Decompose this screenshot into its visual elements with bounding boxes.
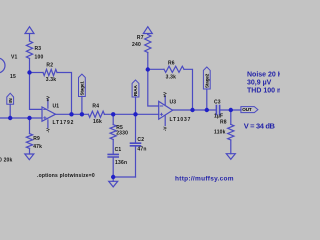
svg-text:R4: R4 bbox=[92, 104, 99, 110]
wire R9 to ground bbox=[29, 149, 31, 155]
svg-text:0 20k: 0 20k bbox=[0, 158, 13, 164]
svg-text:16k: 16k bbox=[93, 119, 102, 125]
wire C2 to rail bbox=[135, 146, 137, 177]
wire R7 to inverting input U3 bbox=[148, 53, 159, 107]
svg-text:3.3k: 3.3k bbox=[46, 77, 57, 83]
wire Stage2 port stem bbox=[206, 89, 208, 110]
wire R8 to ground bbox=[230, 140, 232, 154]
port Stage1 shape bbox=[79, 74, 86, 96]
junction R8/OUT node bbox=[229, 108, 233, 112]
wire R6 branch bbox=[148, 68, 164, 70]
svg-text:LT1792: LT1792 bbox=[53, 120, 75, 126]
svg-text:C3: C3 bbox=[214, 100, 221, 106]
junction U3 output/feedback bbox=[190, 108, 194, 112]
capacitor C1 bbox=[108, 154, 118, 157]
wire R5 branch bbox=[112, 114, 114, 124]
junction RIAA/C2 node bbox=[133, 112, 137, 116]
wire RIAA port stem bbox=[135, 97, 137, 114]
wire R5 to C1 bbox=[112, 140, 114, 154]
port OUT shape bbox=[241, 107, 258, 113]
svg-text:.options plotwinsize=0: .options plotwinsize=0 bbox=[37, 173, 95, 179]
ground flag (rotated up) above R7 bbox=[143, 27, 152, 35]
voltage source V1 bbox=[0, 58, 5, 73]
svg-text:http://muffsy.com: http://muffsy.com bbox=[175, 176, 234, 183]
ground under R9 bbox=[25, 154, 34, 160]
junction U1 output/feedback bbox=[69, 112, 73, 116]
op-amp U1 bbox=[42, 107, 56, 121]
svg-text:C1: C1 bbox=[115, 147, 122, 153]
svg-text:C2: C2 bbox=[137, 137, 144, 143]
svg-text:30,9 µV: 30,9 µV bbox=[247, 80, 272, 87]
resistor R8 bbox=[228, 124, 234, 140]
svg-text:47n: 47n bbox=[137, 147, 146, 153]
ground flag (rotated up) above R3 bbox=[25, 27, 34, 41]
capacitor C3 bbox=[216, 106, 219, 115]
svg-text:136n: 136n bbox=[115, 160, 127, 166]
wire Stage1 port stem bbox=[81, 97, 83, 115]
svg-text:U1: U1 bbox=[53, 103, 60, 109]
resistor R3 bbox=[26, 41, 32, 59]
svg-text:R7: R7 bbox=[137, 35, 144, 41]
junction R5 tap bbox=[111, 112, 115, 116]
wire C2 branch bbox=[135, 114, 137, 142]
svg-text:R6: R6 bbox=[168, 61, 175, 67]
wire R3 to inverting input bbox=[30, 59, 43, 110]
svg-text:OUT: OUT bbox=[242, 107, 252, 112]
resistor R9 bbox=[26, 134, 32, 149]
svg-text:LT1037: LT1037 bbox=[170, 117, 192, 123]
svg-text:U3: U3 bbox=[170, 100, 177, 106]
svg-text:2330: 2330 bbox=[116, 130, 128, 136]
wire C1 to ground rail bbox=[112, 158, 114, 182]
svg-text:R2: R2 bbox=[46, 63, 53, 69]
wire input row bbox=[0, 117, 42, 119]
resistor R4 bbox=[88, 111, 104, 117]
junction R9 tap bbox=[27, 116, 31, 120]
resistor R2 bbox=[43, 69, 57, 75]
svg-text:Stage1: Stage1 bbox=[80, 81, 85, 96]
svg-text:15: 15 bbox=[10, 74, 16, 80]
wire IN port stem bbox=[9, 104, 11, 118]
svg-text:THD 100 m: THD 100 m bbox=[247, 87, 280, 94]
wire R8 branch bbox=[230, 110, 232, 124]
junction IN node bbox=[8, 116, 12, 120]
svg-text:V = 34 dB: V = 34 dB bbox=[244, 121, 276, 130]
ground under R8 bbox=[226, 154, 235, 160]
resistor R5 bbox=[110, 125, 116, 140]
svg-text:R9: R9 bbox=[33, 136, 40, 142]
svg-text:R3: R3 bbox=[35, 46, 42, 52]
svg-text:RIAA: RIAA bbox=[133, 85, 138, 96]
svg-text:Stage2: Stage2 bbox=[204, 73, 209, 88]
port Stage2 shape bbox=[203, 67, 210, 89]
port RIAA shape bbox=[132, 80, 139, 97]
svg-text:V1: V1 bbox=[11, 54, 18, 60]
wire bottom rail bbox=[113, 176, 135, 178]
svg-text:47k: 47k bbox=[33, 144, 42, 150]
capacitor C2 bbox=[131, 143, 141, 146]
junction Stage2 port tap bbox=[205, 108, 209, 112]
ground under C1 bbox=[109, 181, 118, 187]
svg-text:240: 240 bbox=[132, 42, 141, 48]
svg-text:Noise 20 Hz: Noise 20 Hz bbox=[247, 71, 280, 78]
resistor R6 bbox=[164, 66, 184, 72]
junction ground rail bbox=[111, 175, 115, 179]
wire R2 to output node bbox=[57, 73, 72, 115]
wire C3 to OUT bbox=[220, 109, 241, 111]
junction R7/R6 node bbox=[146, 67, 150, 71]
wire stage1 output row bbox=[56, 113, 89, 115]
wire RIAA row bbox=[104, 113, 158, 115]
svg-text:R8: R8 bbox=[220, 120, 227, 126]
junction R3/R2 node bbox=[27, 70, 31, 74]
svg-text:110k: 110k bbox=[214, 129, 226, 135]
wire stage2 output row bbox=[173, 109, 216, 111]
junction Stage1 port tap bbox=[80, 112, 84, 116]
port IN shape bbox=[7, 93, 14, 104]
op-amp U3 bbox=[159, 101, 173, 119]
wire R9 branch bbox=[29, 118, 31, 134]
wire R2 branch bbox=[30, 72, 44, 74]
resistor R7 bbox=[145, 35, 151, 53]
wire R6 to output node bbox=[184, 69, 193, 110]
svg-text:100: 100 bbox=[35, 55, 44, 61]
svg-text:3.3k: 3.3k bbox=[166, 75, 177, 81]
